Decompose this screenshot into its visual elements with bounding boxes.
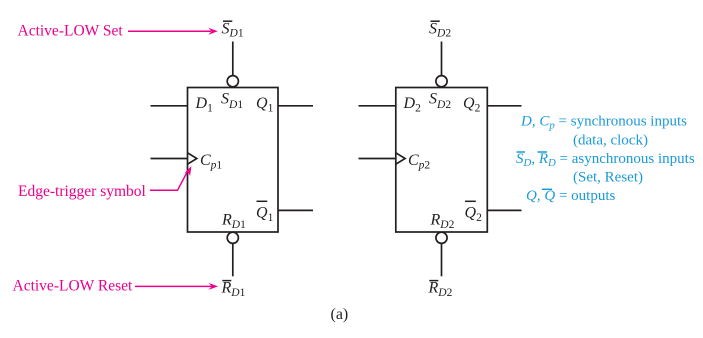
svg-text:Active-LOW Set: Active-LOW Set xyxy=(18,22,124,39)
svg-text:Active-LOW Reset: Active-LOW Reset xyxy=(13,278,133,295)
svg-text:(a): (a) xyxy=(331,306,349,323)
svg-text:Edge-trigger symbol: Edge-trigger symbol xyxy=(18,183,146,200)
svg-text:D, Cp = synchronous inputs: D, Cp = synchronous inputs xyxy=(520,114,687,132)
svg-text:SD, RD = asynchronous inputs: SD, RD = asynchronous inputs xyxy=(516,151,695,169)
svg-text:(Set, Reset): (Set, Reset) xyxy=(573,170,643,186)
svg-text:(data, clock): (data, clock) xyxy=(573,132,648,148)
svg-text:Q, Q = outputs: Q, Q = outputs xyxy=(526,188,615,204)
